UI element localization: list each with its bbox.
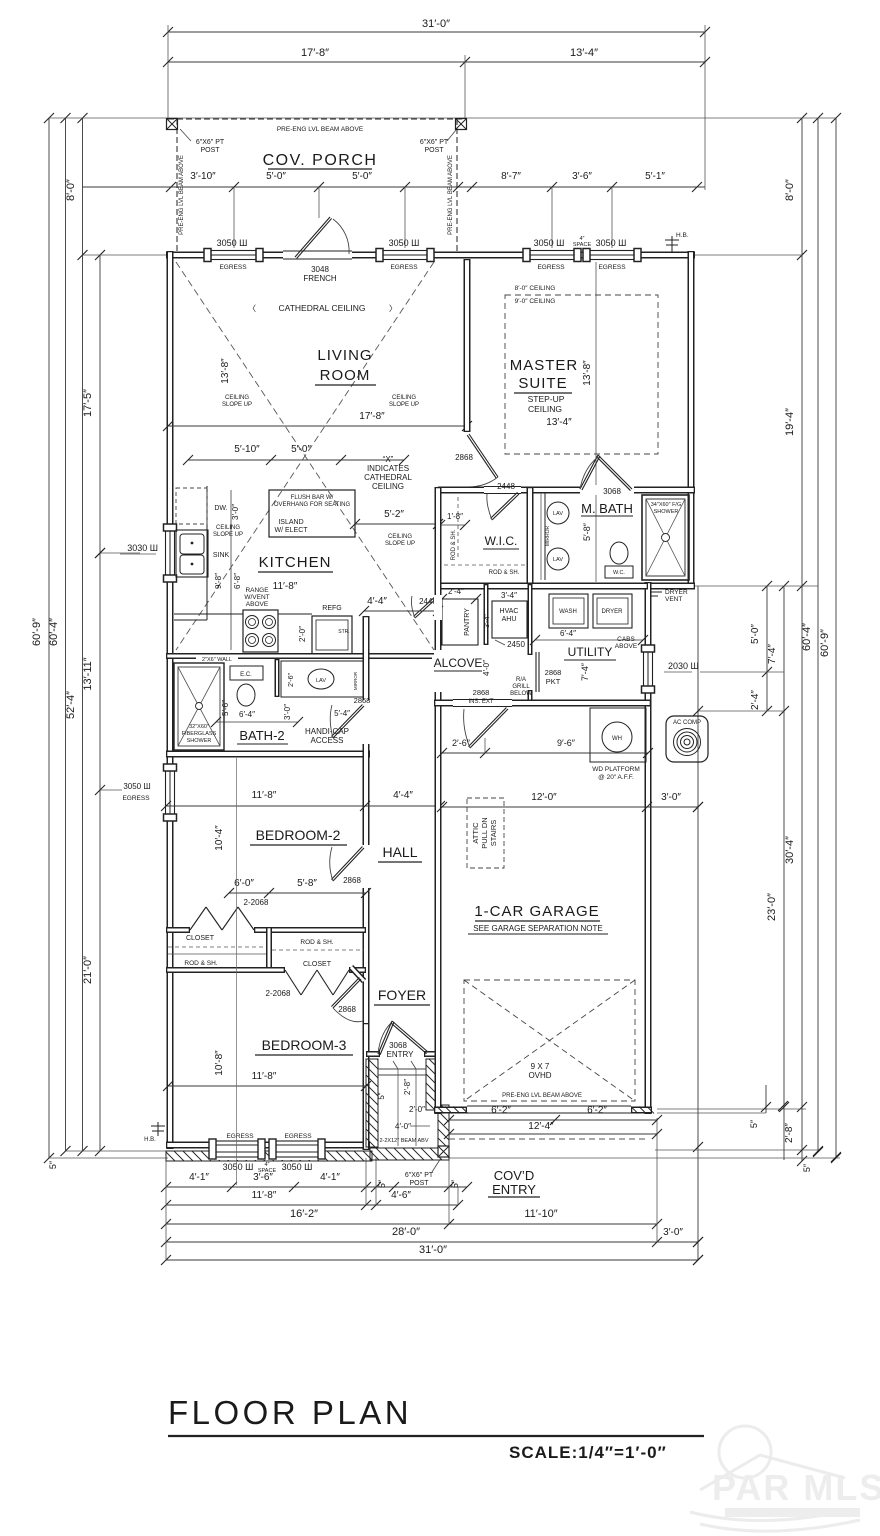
cov'd entry hatch band bbox=[166, 1151, 372, 1161]
svg-text:4′-0″: 4′-0″ bbox=[395, 1122, 411, 1131]
svg-text:COV. PORCH: COV. PORCH bbox=[263, 152, 378, 169]
svg-text:3′-4″: 3′-4″ bbox=[484, 614, 491, 628]
svg-text:CEILING: CEILING bbox=[372, 482, 404, 491]
svg-text:DRYER: DRYER bbox=[665, 589, 688, 596]
svg-text:SLOPE UP: SLOPE UP bbox=[389, 402, 419, 408]
utility window 2030 bbox=[641, 645, 655, 693]
left dim line x=49 (60'-9") bbox=[48, 118, 50, 1158]
svg-text:EGRESS: EGRESS bbox=[537, 264, 565, 271]
svg-text:ROD & SH.: ROD & SH. bbox=[184, 960, 217, 967]
svg-text:2″X6″ WALL: 2″X6″ WALL bbox=[202, 657, 232, 663]
svg-text:FIBERGLASS: FIBERGLASS bbox=[182, 731, 217, 737]
svg-text:2′-8″: 2′-8″ bbox=[784, 1123, 795, 1143]
svg-text:MIRROR: MIRROR bbox=[353, 671, 358, 690]
svg-text:12′-4″: 12′-4″ bbox=[528, 1121, 554, 1132]
svg-text:CEILING: CEILING bbox=[392, 395, 416, 401]
svg-text:5′-10″: 5′-10″ bbox=[234, 444, 260, 455]
svg-text:5′-0″: 5′-0″ bbox=[266, 171, 286, 182]
svg-text:ABOVE: ABOVE bbox=[615, 643, 638, 650]
svg-text:FLOOR PLAN: FLOOR PLAN bbox=[168, 1394, 412, 1431]
porch post left bbox=[167, 119, 178, 130]
svg-text:ALCOVE: ALCOVE bbox=[434, 656, 483, 670]
svg-text:WH: WH bbox=[612, 736, 622, 742]
svg-text:POST: POST bbox=[409, 1180, 429, 1187]
svg-text:SPACE: SPACE bbox=[573, 242, 592, 248]
svg-text:SCALE:1/4″=1′-0″: SCALE:1/4″=1′-0″ bbox=[509, 1443, 667, 1462]
svg-text:3′-0″: 3′-0″ bbox=[283, 704, 292, 720]
svg-text:2-2068: 2-2068 bbox=[266, 989, 291, 998]
svg-text:KITCHEN: KITCHEN bbox=[259, 554, 332, 571]
svg-text:UTILITY: UTILITY bbox=[568, 645, 613, 659]
svg-text:3050 Ш: 3050 Ш bbox=[596, 238, 627, 248]
svg-text:CATHEDRAL CEILING: CATHEDRAL CEILING bbox=[279, 303, 366, 313]
svg-text:3′-10″: 3′-10″ bbox=[190, 171, 216, 182]
bath2 toilet bbox=[237, 684, 255, 706]
master suite step ceiling dashed rect bbox=[505, 295, 658, 454]
svg-text:3068: 3068 bbox=[603, 487, 621, 496]
post at cov'd entry bbox=[438, 1146, 449, 1157]
french door leaf+arc bbox=[295, 217, 330, 257]
right dim line x=802 (8'-0",19'-4",30'-4") bbox=[801, 118, 803, 1161]
svg-text:INS. EXT: INS. EXT bbox=[468, 699, 493, 705]
svg-text:CATHEDRAL: CATHEDRAL bbox=[364, 473, 412, 482]
svg-text:5′-8″: 5′-8″ bbox=[297, 878, 317, 889]
dim line: top 17'-8" / 13'-4" bbox=[168, 61, 705, 63]
svg-text:8′-0″: 8′-0″ bbox=[65, 179, 77, 201]
svg-text:CEILING: CEILING bbox=[216, 525, 240, 531]
dim 12'-0 3'-0 garage bbox=[442, 806, 698, 808]
svg-text:11′-8″: 11′-8″ bbox=[252, 1190, 277, 1201]
svg-text:5′-8″: 5′-8″ bbox=[582, 522, 592, 541]
svg-text:〈: 〈 bbox=[248, 304, 256, 313]
svg-text:13′-4″: 13′-4″ bbox=[570, 47, 598, 59]
front wall windows: living 3050 x2 + french door bbox=[204, 248, 263, 262]
svg-text:2868: 2868 bbox=[343, 876, 361, 885]
garage front wall y=1110 bbox=[434, 1107, 467, 1114]
left wall window 3050 (bedroom-2) bbox=[163, 764, 177, 821]
right dim line x=836 (60'-9") bbox=[835, 118, 837, 1158]
svg-text:CLOSET: CLOSET bbox=[186, 935, 215, 942]
svg-text:23′-0″: 23′-0″ bbox=[766, 893, 778, 921]
svg-text:17′-8″: 17′-8″ bbox=[301, 47, 329, 59]
svg-text:34″X60″ F/G: 34″X60″ F/G bbox=[651, 502, 682, 508]
wall: bath2/bedroom2 y=754 bbox=[166, 751, 370, 758]
svg-text:M. BATH: M. BATH bbox=[581, 501, 633, 516]
wall: right lower (garage) bbox=[645, 582, 652, 1114]
right dim line x=784 (7'-4",23'-0") bbox=[783, 586, 785, 1160]
wall: front (north) bbox=[166, 252, 695, 259]
svg-text:30′-4″: 30′-4″ bbox=[784, 836, 796, 864]
svg-text:21′-0″: 21′-0″ bbox=[82, 956, 94, 984]
ac comp unit bbox=[666, 716, 708, 762]
dim 5'-2 kitchen-side bbox=[355, 523, 438, 525]
pocket door 2868 PKT bbox=[528, 584, 533, 655]
svg-text:ACCESS: ACCESS bbox=[311, 736, 344, 745]
dim 4'-4 alcove bbox=[364, 610, 438, 612]
window-center extension line x=236 bbox=[236, 758, 238, 1185]
svg-text:E.C.: E.C. bbox=[240, 672, 252, 678]
svg-text:3050 Ш: 3050 Ш bbox=[217, 238, 248, 248]
left dim line x=65.5 (60'-4") bbox=[65, 118, 67, 1151]
svg-text:2868: 2868 bbox=[455, 453, 473, 462]
svg-text:6″X6″ PT: 6″X6″ PT bbox=[420, 139, 449, 146]
svg-text:ATTIC: ATTIC bbox=[471, 822, 480, 844]
bath2 door bbox=[333, 706, 364, 738]
attic pull-down stairs bbox=[467, 798, 504, 868]
master front windows bbox=[523, 248, 581, 262]
svg-text:@ 20″ A.F.F.: @ 20″ A.F.F. bbox=[598, 774, 634, 781]
bottom dim line y=1260 bbox=[166, 1259, 698, 1261]
svg-text:ENTRY: ENTRY bbox=[387, 1050, 415, 1059]
svg-text:2-2068: 2-2068 bbox=[244, 898, 269, 907]
svg-text:ENTRY: ENTRY bbox=[492, 1182, 536, 1197]
wall: garage top y=703 bbox=[434, 700, 651, 707]
svg-text:STEP-UP: STEP-UP bbox=[528, 394, 565, 404]
bath2 lav nook wall stub bbox=[275, 659, 280, 697]
svg-text:13′-8″: 13′-8″ bbox=[582, 360, 593, 386]
svg-text:“X”: “X” bbox=[383, 455, 394, 464]
svg-text:POST: POST bbox=[200, 147, 220, 154]
kitchen bottom counter + range bbox=[174, 613, 243, 615]
svg-text:3050 Ш: 3050 Ш bbox=[223, 1162, 254, 1172]
svg-text:H.B.: H.B. bbox=[144, 1137, 156, 1143]
svg-text:4′-4″: 4′-4″ bbox=[393, 790, 413, 801]
svg-text:3050 Ш: 3050 Ш bbox=[389, 238, 420, 248]
svg-text:CEILING: CEILING bbox=[388, 534, 412, 540]
svg-text:3050 Ш: 3050 Ш bbox=[282, 1162, 313, 1172]
svg-text:POST: POST bbox=[424, 147, 444, 154]
svg-text:9′-0″ CEILING: 9′-0″ CEILING bbox=[515, 298, 556, 305]
svg-text:FOYER: FOYER bbox=[378, 987, 426, 1003]
svg-text:BEDROOM-2: BEDROOM-2 bbox=[256, 827, 341, 843]
wall: bedroom3 right x=366 lower bbox=[363, 1023, 370, 1150]
svg-text:3′-6″: 3′-6″ bbox=[572, 171, 592, 182]
svg-text:ABOVE: ABOVE bbox=[246, 601, 269, 608]
svg-text:5′-6″: 5′-6″ bbox=[221, 700, 230, 716]
svg-text:CEILING: CEILING bbox=[225, 395, 249, 401]
svg-text:2′-4″: 2′-4″ bbox=[448, 587, 464, 596]
dim line: porch/master front y=187 bbox=[83, 186, 706, 188]
bath2 EC box bbox=[230, 666, 263, 680]
svg-text:4′-1″: 4′-1″ bbox=[320, 1172, 340, 1183]
svg-text:BEDROOM-3: BEDROOM-3 bbox=[262, 1037, 347, 1053]
svg-text:2868: 2868 bbox=[473, 688, 490, 697]
svg-text:6′-2″: 6′-2″ bbox=[587, 1105, 607, 1116]
cov'd entry beam dashed bbox=[449, 1138, 648, 1140]
svg-text:FRENCH: FRENCH bbox=[303, 274, 337, 283]
right horizontal extensions bbox=[168, 117, 836, 119]
bottom extension verticals bbox=[165, 1158, 167, 1260]
svg-text:3′-0″: 3′-0″ bbox=[663, 1227, 683, 1238]
svg-text:OVHD: OVHD bbox=[528, 1071, 551, 1080]
svg-text:5′-1″: 5′-1″ bbox=[645, 171, 665, 182]
entry right step wall bbox=[438, 1105, 449, 1147]
svg-text:ROD & SH.: ROD & SH. bbox=[489, 570, 520, 576]
svg-text:4′-0″: 4′-0″ bbox=[482, 660, 491, 676]
svg-text:SPACE: SPACE bbox=[258, 1168, 277, 1174]
svg-text:9′-6″: 9′-6″ bbox=[557, 738, 576, 748]
svg-text:6′-4″: 6′-4″ bbox=[560, 629, 576, 638]
wall: master/mbath y=490 bbox=[438, 487, 695, 494]
svg-text:4′-4″: 4′-4″ bbox=[367, 596, 387, 607]
svg-text:5′-0″: 5′-0″ bbox=[352, 171, 372, 182]
svg-text:3030 Ш: 3030 Ш bbox=[127, 543, 158, 553]
svg-text:PRE-ENG LVL BEAM ABOVE: PRE-ENG LVL BEAM ABOVE bbox=[179, 155, 185, 235]
right dim line x=698 (garage 3'-0") bbox=[697, 586, 699, 1260]
svg-text:W.I.C.: W.I.C. bbox=[485, 534, 518, 548]
wall: hall left x=366 bbox=[363, 616, 370, 1029]
svg-text:8′-0″: 8′-0″ bbox=[784, 179, 796, 201]
svg-text:3′-4″: 3′-4″ bbox=[501, 591, 517, 600]
right dim line x=818 (60'-4") bbox=[817, 118, 819, 1151]
porch post right bbox=[456, 119, 467, 130]
svg-text:R/A: R/A bbox=[516, 677, 526, 683]
cathedral ceiling X dashed bbox=[176, 262, 434, 650]
svg-text:ROD & SH.: ROD & SH. bbox=[451, 529, 457, 560]
svg-text:6′-8″: 6′-8″ bbox=[233, 573, 242, 589]
svg-text:PRE-ENG LVL BEAM ABOVE: PRE-ENG LVL BEAM ABOVE bbox=[448, 155, 454, 235]
dryer box bbox=[593, 594, 632, 628]
svg-text:3068: 3068 bbox=[389, 1041, 407, 1050]
svg-text:5′-0″: 5′-0″ bbox=[291, 444, 311, 455]
dim line: top overall 31'-0" bbox=[168, 31, 705, 33]
svg-text:ROD & SH.: ROD & SH. bbox=[300, 939, 333, 946]
wall: left (west) bbox=[167, 251, 174, 1149]
bottom dim line y=1242 bbox=[166, 1241, 698, 1243]
svg-text:1′-8″: 1′-8″ bbox=[447, 512, 463, 521]
wall: wic/mbath divider x=530 bbox=[527, 487, 534, 589]
svg-text:19′-4″: 19′-4″ bbox=[784, 408, 796, 436]
svg-text:ROOM: ROOM bbox=[320, 367, 371, 384]
svg-text:2′-8″: 2′-8″ bbox=[403, 1079, 412, 1095]
svg-text:DRYER: DRYER bbox=[602, 609, 624, 615]
svg-text:11′-8″: 11′-8″ bbox=[252, 790, 277, 801]
svg-text:2868: 2868 bbox=[338, 1005, 356, 1014]
left dim line x=100 (17'-5",13'-11",21'-0") bbox=[99, 255, 101, 1151]
hose bib bottom left bbox=[157, 1122, 159, 1136]
bedroom3 front windows tall bbox=[209, 1138, 265, 1160]
range bbox=[243, 610, 278, 652]
svg-text:2868: 2868 bbox=[545, 668, 562, 677]
mbath shower bbox=[642, 495, 689, 580]
svg-text:GRILL: GRILL bbox=[512, 684, 530, 690]
svg-text:PANTRY: PANTRY bbox=[464, 608, 471, 636]
svg-text:PRE-ENG LVL BEAM ABOVE: PRE-ENG LVL BEAM ABOVE bbox=[277, 126, 364, 133]
svg-text:AHU: AHU bbox=[502, 616, 517, 623]
hvac box bbox=[492, 601, 527, 638]
mbath lav basins bbox=[547, 502, 569, 524]
bottom dim line y=1224 bbox=[166, 1223, 657, 1225]
watermark logo PAR MLS bbox=[690, 1426, 860, 1531]
svg-text:2′-4″: 2′-4″ bbox=[750, 690, 761, 710]
svg-text:9 X 7: 9 X 7 bbox=[531, 1062, 550, 1071]
svg-text:W/VENT: W/VENT bbox=[244, 594, 269, 601]
svg-text:10′-8″: 10′-8″ bbox=[214, 1050, 225, 1076]
svg-text:CEILING: CEILING bbox=[528, 404, 562, 414]
wall: right upper (master) bbox=[688, 251, 695, 589]
svg-text:STAIRS: STAIRS bbox=[489, 820, 498, 847]
svg-text:2′-6″: 2′-6″ bbox=[452, 738, 471, 748]
svg-text:EGRESS: EGRESS bbox=[598, 264, 626, 271]
dw dashed box bbox=[176, 488, 207, 524]
room label: ALCOVE (top layer) bbox=[432, 655, 482, 672]
entry threshold lines bbox=[378, 1068, 426, 1070]
dim 6'-0 5'-8 y=893 bbox=[229, 892, 366, 894]
svg-text:WASH: WASH bbox=[559, 609, 577, 615]
dim 11'-8 bedroom3 bbox=[168, 1085, 366, 1087]
svg-text:W.C.: W.C. bbox=[613, 570, 625, 576]
svg-text:60′-4″: 60′-4″ bbox=[801, 623, 813, 651]
svg-text:STR.: STR. bbox=[338, 629, 349, 635]
wall: wic/mbath bottom y=586 (left part) bbox=[438, 583, 648, 590]
svg-text:2′-0″: 2′-0″ bbox=[298, 626, 307, 642]
svg-text:PULL DN: PULL DN bbox=[480, 817, 489, 848]
bottom dim line y=1187 bbox=[166, 1186, 467, 1188]
wall: bedroom-3 front (south) bbox=[166, 1142, 370, 1149]
svg-text:H.B.: H.B. bbox=[676, 232, 689, 239]
svg-text:1-CAR GARAGE: 1-CAR GARAGE bbox=[474, 903, 599, 920]
svg-text:60′-9″: 60′-9″ bbox=[819, 629, 831, 657]
svg-text:PAR MLS: PAR MLS bbox=[712, 1467, 880, 1508]
bifold doors bedroom2 closet 2-2068 bbox=[190, 907, 206, 930]
right small dims at cov'd entry bbox=[765, 1085, 767, 1113]
svg-text:17′-5″: 17′-5″ bbox=[82, 389, 94, 417]
svg-text:31′-0″: 31′-0″ bbox=[422, 18, 450, 30]
svg-text:8′-7″: 8′-7″ bbox=[501, 171, 521, 182]
kitchen counter edge bbox=[206, 486, 208, 620]
bedroom2 door bbox=[333, 848, 364, 881]
svg-text:REFG: REFG bbox=[322, 605, 341, 612]
svg-text:PKT: PKT bbox=[546, 677, 561, 686]
wh platform bbox=[590, 708, 646, 762]
svg-text:LIVING: LIVING bbox=[317, 347, 372, 364]
svg-text:EGRESS: EGRESS bbox=[390, 264, 418, 271]
svg-text:INDICATES: INDICATES bbox=[367, 464, 409, 473]
svg-text:CLOSET: CLOSET bbox=[303, 961, 332, 968]
svg-text:PRE-ENG LVL BEAM ABOVE: PRE-ENG LVL BEAM ABOVE bbox=[502, 1093, 582, 1099]
svg-text:60′-4″: 60′-4″ bbox=[48, 618, 60, 646]
dim 6'-4 utility bbox=[535, 639, 643, 641]
svg-text:13′-8″: 13′-8″ bbox=[220, 358, 231, 384]
svg-text:SLOPE UP: SLOPE UP bbox=[385, 541, 415, 547]
wic door leaf bbox=[492, 494, 519, 520]
wall: master left bbox=[464, 259, 471, 432]
sink cabinet bbox=[176, 530, 208, 577]
right dim line x=767 (5'-0",2'-4") bbox=[766, 586, 768, 711]
svg-text:SUITE: SUITE bbox=[518, 375, 567, 392]
svg-text:11′-10″: 11′-10″ bbox=[524, 1208, 557, 1220]
svg-text:5″: 5″ bbox=[48, 1160, 58, 1169]
closet walls bbox=[166, 927, 190, 933]
svg-text:3048: 3048 bbox=[311, 265, 329, 274]
svg-text:52′-4″: 52′-4″ bbox=[65, 691, 77, 719]
svg-text:5″: 5″ bbox=[802, 1163, 812, 1172]
garage entry door 2868 INS EXT bbox=[470, 709, 508, 748]
garage door dims y=1120/1134 bbox=[449, 1119, 657, 1121]
left horizontal extensions bbox=[49, 117, 168, 119]
svg-text:8′-0″ CEILING: 8′-0″ CEILING bbox=[515, 285, 556, 292]
svg-text:6″X6″ PT: 6″X6″ PT bbox=[405, 1172, 434, 1179]
svg-text:W/ ELECT: W/ ELECT bbox=[274, 527, 308, 534]
svg-text:11′-8″: 11′-8″ bbox=[273, 581, 298, 592]
svg-text:9′-8″: 9′-8″ bbox=[214, 573, 223, 589]
svg-text:16′-2″: 16′-2″ bbox=[290, 1208, 318, 1220]
svg-text:3′-0″: 3′-0″ bbox=[661, 792, 681, 803]
master door leaf+arc bbox=[469, 434, 498, 477]
svg-text:VENT: VENT bbox=[665, 596, 682, 603]
svg-text:SLOPE UP: SLOPE UP bbox=[213, 532, 243, 538]
svg-text:4′-6″: 4′-6″ bbox=[391, 1190, 411, 1201]
svg-text:6″X6″ PT: 6″X6″ PT bbox=[196, 139, 225, 146]
foyer/bedroom3 angled wall + door 2868 bbox=[351, 967, 364, 981]
svg-text:17′-8″: 17′-8″ bbox=[359, 411, 385, 422]
svg-text:BATH-2: BATH-2 bbox=[239, 728, 284, 743]
svg-text:SLOPE UP: SLOPE UP bbox=[222, 402, 252, 408]
mbath door tent 3068 bbox=[580, 455, 598, 489]
svg-text:WD PLATFORM: WD PLATFORM bbox=[592, 766, 640, 773]
svg-text:60′-9″: 60′-9″ bbox=[31, 618, 43, 646]
svg-text:3050 Ш: 3050 Ш bbox=[534, 238, 565, 248]
svg-text:4′-1″: 4′-1″ bbox=[189, 1172, 209, 1183]
svg-text:CABS: CABS bbox=[617, 636, 635, 643]
dim 11'-8 / 4'-4 y=806 bbox=[166, 805, 440, 807]
svg-text:DW.: DW. bbox=[214, 505, 227, 512]
hose bib top right bbox=[671, 236, 673, 252]
svg-text:10′-4″: 10′-4″ bbox=[214, 825, 225, 851]
wall: kitchen/bath2 y=656 bbox=[166, 653, 438, 659]
bath2 lav vanity bbox=[281, 661, 363, 697]
svg-text:6′-0″: 6′-0″ bbox=[234, 878, 254, 889]
porch dashed outline bbox=[168, 118, 465, 120]
mbath lav counter bbox=[544, 493, 546, 580]
wall pantry/hvac x=486 bbox=[484, 584, 489, 645]
svg-text:11′-8″: 11′-8″ bbox=[252, 1071, 277, 1082]
entry door tent 3068 bbox=[378, 1021, 392, 1054]
bath2 dims bbox=[216, 721, 298, 723]
svg-text:2450: 2450 bbox=[507, 640, 525, 649]
svg-text:2030 Ш: 2030 Ш bbox=[668, 661, 699, 671]
svg-text:FLUSH BAR W/: FLUSH BAR W/ bbox=[291, 495, 334, 501]
kitchen island bbox=[269, 490, 355, 537]
refrigerator bbox=[312, 616, 352, 654]
svg-text:〉: 〉 bbox=[389, 304, 397, 313]
svg-text:EGRESS: EGRESS bbox=[219, 264, 247, 271]
bifold doors bedroom3 closet 2-2068 bbox=[285, 970, 301, 995]
wall: step at y=586 bbox=[645, 583, 695, 590]
svg-text:7′-4″: 7′-4″ bbox=[580, 662, 590, 681]
svg-text:LAV: LAV bbox=[553, 511, 563, 517]
pantry box bbox=[442, 599, 478, 645]
svg-text:5′-0″: 5′-0″ bbox=[750, 624, 761, 644]
bottom dim line y=1205 bbox=[166, 1204, 458, 1206]
svg-text:BELOW: BELOW bbox=[510, 691, 532, 697]
svg-text:MASTER: MASTER bbox=[510, 357, 579, 374]
svg-text:13′-4″: 13′-4″ bbox=[546, 417, 572, 428]
svg-text:13′-11″: 13′-11″ bbox=[82, 657, 94, 690]
svg-text:HALL: HALL bbox=[382, 844, 417, 860]
mbath toilet bbox=[610, 542, 628, 564]
svg-text:LAV: LAV bbox=[553, 557, 563, 563]
svg-text:LAV: LAV bbox=[316, 678, 326, 684]
svg-text:2-2X12″ BEAM ABV: 2-2X12″ BEAM ABV bbox=[379, 1138, 428, 1144]
svg-text:RANGE: RANGE bbox=[245, 587, 269, 594]
svg-text:6′-2″: 6′-2″ bbox=[491, 1105, 511, 1116]
svg-text:5′-2″: 5′-2″ bbox=[384, 509, 404, 520]
svg-text:7′-4″: 7′-4″ bbox=[767, 644, 778, 664]
garage dims 2'-6 9'-6 bbox=[442, 752, 648, 754]
left wall window 3030 (kitchen) bbox=[163, 524, 177, 582]
garage door dashed rect + X bbox=[464, 980, 635, 1101]
